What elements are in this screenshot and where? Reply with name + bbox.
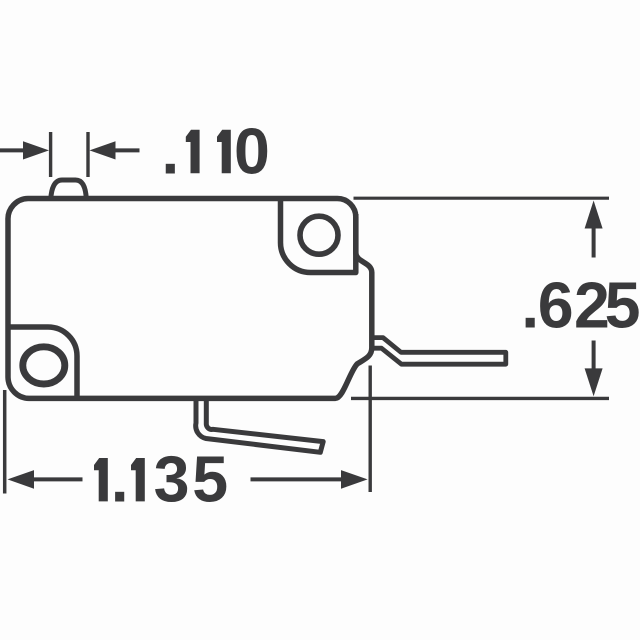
dimension .110 extension line left <box>49 132 52 177</box>
digit 1 (second) of 1.135 <box>131 458 145 501</box>
digit 1 (first) of .110 <box>186 130 200 173</box>
svg-text:.35: .35 <box>111 444 228 516</box>
dimension 1.135 left arrow <box>8 470 83 489</box>
top-right mounting-hole pocket <box>280 200 355 273</box>
switch body outline <box>8 198 372 398</box>
dimension 1.135 right extension line <box>369 366 372 493</box>
right side terminal <box>371 338 506 365</box>
dimension .625 bottom extension line <box>351 397 609 400</box>
svg-text:.625: .625 <box>521 270 640 342</box>
bottom terminal <box>196 396 324 452</box>
dimension .110 extension line right <box>86 132 89 177</box>
dimension 1.135 left extension line <box>3 390 7 494</box>
bottom-left mounting hole <box>23 347 65 384</box>
svg-text:.0: .0 <box>161 116 269 188</box>
dimension 1.135 right arrow <box>251 470 368 489</box>
plunger button <box>51 180 87 199</box>
dimension .625 down arrow <box>585 341 603 397</box>
digit 1 (first) of 1.135 <box>94 458 108 501</box>
top-right mounting hole <box>300 216 338 254</box>
dimension .110 left arrow <box>0 141 49 159</box>
dimension .110 right arrow <box>90 141 140 159</box>
digit 1 (second) of .110 <box>217 130 231 173</box>
dimension .625 top extension line <box>354 197 610 200</box>
bottom-left mounting-hole pocket <box>8 327 77 397</box>
dimension .625 up arrow <box>585 201 603 258</box>
